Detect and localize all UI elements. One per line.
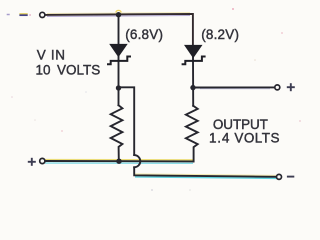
svg-text:1.4: 1.4 [209, 130, 230, 145]
svg-text:(6.8V): (6.8V) [125, 27, 163, 42]
svg-text:(8.2V): (8.2V) [201, 27, 239, 42]
svg-text:10: 10 [36, 63, 51, 78]
svg-text:VOLTS: VOLTS [57, 63, 100, 78]
svg-text:VOLTS: VOLTS [234, 130, 280, 145]
svg-text:V IN: V IN [37, 48, 66, 63]
